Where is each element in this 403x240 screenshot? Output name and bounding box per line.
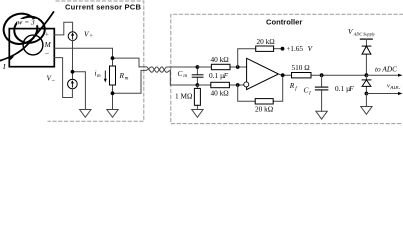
capacitor Cf — [321, 75, 323, 111]
arrow V+ inside — [72, 34, 74, 39]
diode D2 clamp to ground — [365, 75, 367, 93]
svg-text:M: M — [44, 40, 52, 49]
svg-text:in: in — [183, 74, 187, 79]
svg-text:0.1 µ: 0.1 µ — [209, 71, 224, 80]
resistor 20k bottom — [255, 99, 273, 104]
to ADC arrow — [366, 74, 399, 76]
op-amp inverting input bubble — [244, 82, 249, 87]
svg-text:I: I — [2, 62, 6, 71]
ground PCB right — [107, 110, 118, 118]
junction vADC — [365, 92, 369, 96]
svg-text:+: + — [45, 32, 49, 39]
arrow on primary current I — [9, 56, 15, 60]
svg-text:F: F — [348, 84, 354, 93]
output wire — [279, 74, 367, 75]
wire + terminal loop — [54, 22, 72, 35]
ground right column — [361, 107, 372, 115]
node +1.65V — [281, 47, 285, 51]
primary conductor I — [0, 12, 54, 61]
wire minus terminal loop — [54, 58, 72, 98]
svg-text:40 kΩ: 40 kΩ — [211, 89, 230, 98]
twisted pair cable strand B — [141, 67, 170, 72]
svg-text:Current sensor PCB: Current sensor PCB — [65, 3, 141, 12]
transformer M core box — [9, 29, 54, 67]
junction to ADC — [365, 73, 369, 77]
svg-text:–: – — [44, 49, 49, 57]
svg-text:R: R — [119, 71, 125, 80]
capacitor Cin — [196, 67, 198, 85]
source V+ — [68, 32, 77, 41]
svg-text:C: C — [304, 86, 309, 95]
junction top wire at Cin — [196, 65, 200, 69]
op-amp U1 — [247, 58, 279, 89]
twisted pair cable strand A — [139, 67, 197, 72]
svg-text:+: + — [89, 34, 92, 40]
svg-text:m: m — [125, 76, 129, 81]
current arrow im — [104, 71, 106, 80]
transformer core circle — [23, 35, 43, 55]
feedback bottom rail to 20k — [238, 75, 283, 101]
svg-text:40 kΩ: 40 kΩ — [211, 55, 230, 64]
junction bottom wire feedback — [236, 83, 240, 87]
svg-text:20 kΩ: 20 kΩ — [257, 37, 276, 46]
junction Cf — [320, 73, 324, 77]
junction top wire feedback — [236, 65, 240, 69]
resistor 20k top — [256, 46, 274, 51]
ground PCB left — [80, 110, 91, 118]
resistor 510 Rf — [292, 73, 312, 78]
arrow V- inside — [71, 82, 73, 87]
source V- — [68, 79, 78, 89]
resistor 40k bottom — [197, 84, 243, 86]
svg-text:–: – — [51, 78, 55, 84]
wire bottom return to connector — [113, 71, 142, 94]
vADC arrow — [366, 93, 399, 95]
wire V+ bottom to V- top vertical — [72, 41, 74, 80]
ground 1MOhm — [192, 110, 203, 118]
svg-text:510 Ω: 510 Ω — [292, 63, 311, 72]
svg-text:C: C — [178, 69, 183, 78]
junction output feedback — [281, 73, 285, 77]
feedback top rail to 20k — [238, 49, 283, 67]
diode D1 clamp to supply — [362, 46, 371, 54]
supply bar — [360, 38, 372, 40]
wire Rm vertical — [112, 58, 114, 66]
wire node to Rm and connector — [113, 58, 140, 67]
ground Cf — [316, 111, 327, 119]
label w = 3 halo — [17, 19, 38, 25]
junction node at Rm top — [111, 56, 115, 60]
svg-text:ADC Supply: ADC Supply — [353, 32, 375, 37]
svg-text:m: m — [97, 74, 101, 79]
svg-text:0.1 µ: 0.1 µ — [335, 84, 350, 93]
winding coil w=3 — [0, 10, 46, 48]
resistor 40k top — [197, 66, 246, 68]
junction node ground branch — [71, 70, 75, 74]
svg-text:w = 3: w = 3 — [18, 18, 35, 27]
svg-text:to ADC: to ADC — [375, 65, 397, 74]
svg-text:Controller: Controller — [266, 18, 302, 27]
dashed box Current sensor PCB — [48, 1, 144, 121]
wire twisted pair to controller bottom — [170, 70, 197, 85]
junction node at Rm bottom — [111, 91, 115, 95]
junction bottom wire at Cin — [196, 83, 200, 87]
resistor 1MOhm — [196, 85, 198, 110]
wire to ground right — [365, 94, 367, 107]
wire supply to diode — [365, 39, 367, 75]
wire M terminal main — [54, 48, 112, 58]
dashed box Controller — [171, 14, 403, 123]
svg-text:+1.65: +1.65 — [286, 44, 303, 53]
resistor Rm — [110, 66, 116, 85]
wire ground branch from node — [73, 72, 86, 110]
svg-text:20 kΩ: 20 kΩ — [255, 105, 274, 114]
svg-text:F: F — [223, 71, 229, 80]
svg-text:R: R — [289, 81, 295, 90]
svg-text:ADC: ADC — [389, 86, 401, 91]
svg-text:1 MΩ: 1 MΩ — [175, 92, 193, 101]
